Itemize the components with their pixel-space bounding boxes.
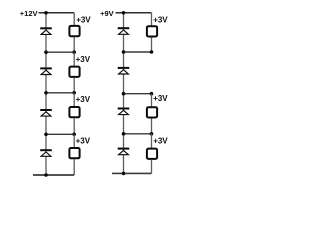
svg-text:+12V: +12V — [20, 9, 38, 18]
svg-text:+3V: +3V — [153, 15, 168, 24]
load box 3 +3V — [69, 107, 79, 117]
wire bottom rail left chain — [33, 174, 74, 176]
node dot rung2r left — [122, 92, 126, 96]
svg-text:+3V: +3V — [76, 136, 91, 145]
diode D6 — [118, 67, 130, 74]
wire top rail left — [39, 12, 75, 14]
wire left rail right chain — [123, 13, 125, 174]
svg-text:+3V: +3V — [153, 94, 168, 103]
diode D4 — [40, 149, 52, 156]
wire box3 top — [73, 93, 75, 107]
diode D2 — [40, 67, 52, 74]
wire rung 3 — [46, 133, 74, 135]
node junction dot +9V rail — [122, 11, 126, 15]
load box 4 +3V — [69, 148, 79, 158]
node dot rung1 left — [44, 50, 48, 54]
load box 1 +3V — [69, 26, 79, 36]
wire box4 top — [73, 134, 75, 147]
wire box1 bottom — [73, 37, 75, 52]
wire box6 bottom — [151, 118, 153, 133]
wire left rail — [45, 13, 47, 175]
node dot bottom rail left chain — [44, 173, 48, 177]
load box 6 +3V — [147, 107, 157, 117]
wire rung 2 — [46, 92, 74, 94]
svg-text:+3V: +3V — [76, 55, 91, 64]
wire box column segment 1 right chain — [151, 13, 153, 26]
wire rung 1 right chain — [124, 51, 152, 53]
node dot rung1 right — [72, 50, 76, 54]
diode D3 — [40, 109, 52, 116]
load box 7 +3V — [147, 149, 157, 159]
wire box2 top — [73, 52, 75, 66]
node dot rung2 left — [44, 91, 48, 95]
diode D8 — [118, 148, 130, 155]
wire box5 bottom — [151, 37, 153, 52]
node dot bottom rail right chain — [122, 172, 126, 176]
diode D7 — [118, 108, 130, 115]
wire top rail right chain — [116, 12, 152, 14]
wire rung 3 right chain — [124, 133, 152, 135]
node dot rung2r right — [150, 92, 154, 96]
wire rung 2 right chain — [124, 93, 152, 95]
svg-text:+9V: +9V — [100, 9, 114, 18]
diode D1 — [40, 27, 52, 34]
svg-text:+3V: +3V — [153, 136, 168, 145]
load box 2 +3V — [69, 67, 79, 77]
svg-text:+3V: +3V — [76, 15, 91, 24]
load box 5 +3V — [147, 26, 157, 36]
wire box7 top — [151, 134, 153, 148]
node dot rung3r right — [150, 132, 154, 136]
wire box3 bottom — [73, 118, 75, 134]
wire rung 1 — [46, 51, 74, 53]
wire box2 bottom — [73, 78, 75, 93]
svg-text:+3V: +3V — [76, 95, 91, 104]
node dot rung3r left — [122, 132, 126, 136]
node dot rung1r right — [150, 50, 154, 54]
node dot rung3 right — [72, 133, 76, 137]
node dot rung1r left — [122, 50, 126, 54]
node junction dot +12V rail — [44, 11, 48, 15]
diode D5 — [118, 27, 130, 34]
wire bottom rail right chain — [112, 172, 152, 174]
wire box4 bottom — [73, 159, 75, 175]
node dot rung3 left — [44, 133, 48, 137]
node dot rung2 right — [72, 91, 76, 95]
wire box7 bottom — [151, 160, 153, 174]
wire box column segment 1 — [73, 13, 75, 26]
wire box6 top — [151, 94, 153, 107]
